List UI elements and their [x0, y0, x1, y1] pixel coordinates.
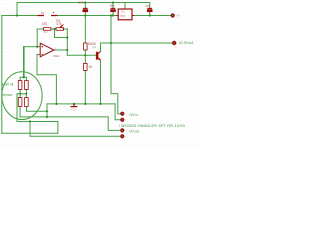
potentiometer R1 wiper arrow [60, 25, 63, 27]
pad P2 [120, 118, 124, 122]
svg-text:20-30 mA: 20-30 mA [179, 41, 194, 45]
bridge resistor bodies [18, 81, 22, 90]
wire ground rail [47, 103, 115, 105]
wire feedback vertical right [66, 29, 68, 55]
pad P4 [120, 134, 124, 138]
capacitor C1 plates [83, 7, 88, 9]
wire bridge mid links [20, 90, 26, 98]
svg-text:Q1: Q1 [92, 45, 96, 49]
svg-text:7805: 7805 [120, 15, 126, 18]
wire top ground rail [17, 2, 150, 4]
wire input rail left segment [2, 15, 38, 17]
wire 12V jog [111, 94, 121, 114]
pad 9V output [171, 13, 175, 17]
wire C1 top lead [84, 3, 86, 9]
wire feedback middle segment [51, 28, 56, 30]
wire bridge bottom node [20, 107, 47, 117]
svg-text:WOODS HANDLER SPT RR-12/93: WOODS HANDLER SPT RR-12/93 [121, 124, 185, 128]
wire C3 bottom lead [149, 12, 151, 16]
wire sensor top feed [23, 47, 25, 77]
wire 12V vertical feed [110, 16, 112, 94]
wire opamp output [56, 49, 68, 51]
wire R3 top lead from rail [84, 16, 86, 44]
wire left drop of top rail [16, 3, 18, 16]
svg-text:Sensor: Sensor [2, 93, 14, 97]
regulator pins [116, 15, 134, 17]
capacitor C3 plates [147, 7, 152, 9]
wire bridge mid tap [17, 94, 58, 122]
wire feedback right segment [63, 28, 67, 30]
wire pot wiper loop [55, 29, 68, 38]
svg-text:HV out: HV out [129, 130, 139, 134]
opamp input pins [37, 47, 40, 55]
wire ground branch to pad P2 [115, 104, 121, 120]
wire R4 bottom lead [84, 70, 86, 104]
junction dots [16, 1, 151, 122]
wire emitter lead [100, 61, 102, 104]
wire plus input to ground rail [37, 54, 56, 104]
wire C2 top lead [112, 3, 114, 9]
transistor Q1 [96, 52, 98, 59]
svg-text:IC2: IC2 [121, 10, 125, 13]
opamp output pin [54, 49, 56, 51]
svg-text:R2: R2 [44, 30, 48, 34]
wire base rail [67, 54, 96, 56]
red value labels [41, 1, 180, 69]
wire feedback top left segment [37, 28, 43, 30]
wire regulator ground pin drop [124, 3, 126, 10]
wire current output line [101, 42, 173, 44]
svg-text:GND: GND [70, 109, 75, 111]
wire collector lead [100, 43, 102, 51]
wire outer loop bottom [2, 132, 58, 134]
resistor R4 body [84, 63, 88, 70]
svg-text:FSR 2k: FSR 2k [2, 82, 14, 86]
wire input rail right segment [58, 15, 119, 17]
svg-text:470: 470 [145, 4, 150, 8]
opamp plus minus marks [41, 46, 43, 55]
pad 20-30 mA [172, 41, 176, 45]
switch S1 pins [38, 15, 58, 17]
sensor circle [2, 72, 42, 120]
pad P3 HV out [120, 128, 124, 132]
ground symbol [71, 104, 78, 107]
wire ground branch to pad P3 [20, 104, 121, 130]
wire outer loop rise [57, 122, 59, 134]
green net labels [2, 41, 194, 139]
regulator IC2 body [118, 9, 132, 20]
wire pad P4 rail [30, 122, 121, 137]
svg-text:S1: S1 [41, 11, 45, 15]
svg-text:!: ! [119, 124, 120, 128]
opamp IC1A triangle [40, 43, 54, 57]
svg-text:100u: 100u [109, 5, 115, 8]
wire feedback vertical left [36, 29, 38, 47]
wire minus input horizontal [24, 46, 38, 48]
wire C3 top lead [149, 3, 151, 9]
svg-text:47k: 47k [56, 22, 62, 26]
svg-text:1000u: 1000u [77, 1, 85, 5]
pad P1 12V in [120, 112, 124, 116]
svg-text:9V: 9V [177, 14, 181, 18]
potentiometer R1 body [56, 28, 64, 31]
svg-text:470: 470 [42, 22, 48, 26]
svg-text:12V in: 12V in [129, 113, 138, 117]
wire R3-R4 junction leads [84, 50, 86, 63]
switch S1 lever mark [53, 11, 54, 13]
resistor R3 body [84, 43, 88, 50]
wire C2 bottom lead [112, 12, 114, 16]
wire C1 bottom lead [84, 12, 86, 16]
capacitor C2 plates [111, 7, 116, 9]
pads [120, 13, 176, 138]
wire output rail to pad [132, 15, 171, 17]
wire bridge top node [20, 77, 26, 80]
svg-text:IC1A: IC1A [53, 54, 59, 58]
wire outer left loop vertical [1, 16, 3, 134]
resistor R2 body [44, 28, 52, 31]
